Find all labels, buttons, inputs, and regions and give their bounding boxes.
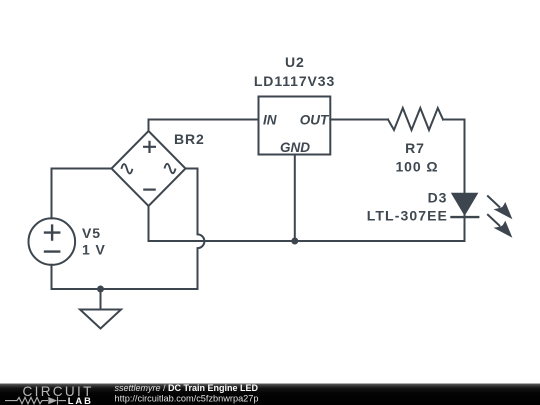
svg-text:OUT: OUT [300, 113, 330, 128]
footer logo waveform wire with resistor and diode [5, 397, 66, 405]
svg-text:ssettlemyre / DC Train Engine: ssettlemyre / DC Train Engine LED [115, 383, 259, 393]
wire: bottom rail from LED to GND junction [295, 240, 465, 242]
resistor R7 zigzag [388, 108, 443, 130]
svg-text:D3: D3 [428, 190, 448, 206]
BR2 AC tilde right [165, 164, 176, 173]
footer logo diode triangle [48, 397, 57, 404]
svg-text:1 V: 1 V [82, 242, 106, 258]
LED light arrow 2 [487, 214, 512, 238]
svg-text:http://circuitlab.com/c5fzbnwr: http://circuitlab.com/c5fzbnwrpa27p [115, 393, 259, 403]
svg-text:100 Ω: 100 Ω [396, 158, 439, 174]
wire: bridge right vertex right, down with hop over bottom rail, left to V5 bottom [52, 169, 205, 290]
svg-text:LD1117V33: LD1117V33 [254, 73, 335, 89]
LED light arrow 1 [487, 196, 512, 220]
BR2 AC tilde left [121, 164, 132, 173]
LED D3 cathode bar [450, 216, 479, 218]
regulator U2 body [259, 97, 331, 155]
node: junction dot at U2 GND and bottom rail [291, 238, 298, 245]
wire: resistor R7 right to corner and down to LED D3 anode [443, 120, 465, 194]
svg-text:IN: IN [263, 113, 277, 128]
V5 plus sign [44, 224, 61, 240]
voltage source V5 body [29, 218, 76, 265]
node: junction dot at ground connection on bottom wire [97, 286, 104, 293]
svg-text:LAB: LAB [68, 395, 93, 405]
ground [80, 310, 121, 329]
ground stub wire [100, 289, 102, 310]
footer bar [0, 384, 540, 405]
LED D3 triangle [452, 193, 478, 215]
wire: U2 GND pin down to bottom rail junction [294, 155, 296, 242]
svg-text:U2: U2 [285, 54, 305, 70]
wire: U2 OUT pin to resistor R7 [330, 119, 388, 121]
svg-text:GND: GND [280, 140, 310, 155]
svg-text:BR2: BR2 [174, 131, 205, 147]
wire: bridge left vertex to V5 top [52, 169, 112, 219]
wire: bottom rail from GND junction to bridge bottom vertex [149, 206, 295, 241]
svg-text:R7: R7 [405, 140, 425, 156]
BR2 plus marking [143, 141, 156, 153]
wire: LED D3 cathode down to bottom rail [464, 215, 466, 241]
svg-text:LTL-307EE: LTL-307EE [367, 207, 448, 223]
wire: bridge top vertex up and right to U2 IN pin [149, 120, 259, 132]
svg-text:V5: V5 [82, 225, 101, 241]
V5 minus sign [44, 250, 61, 252]
bridge rectifier BR2 body [112, 131, 186, 206]
BR2 minus marking [143, 189, 156, 191]
